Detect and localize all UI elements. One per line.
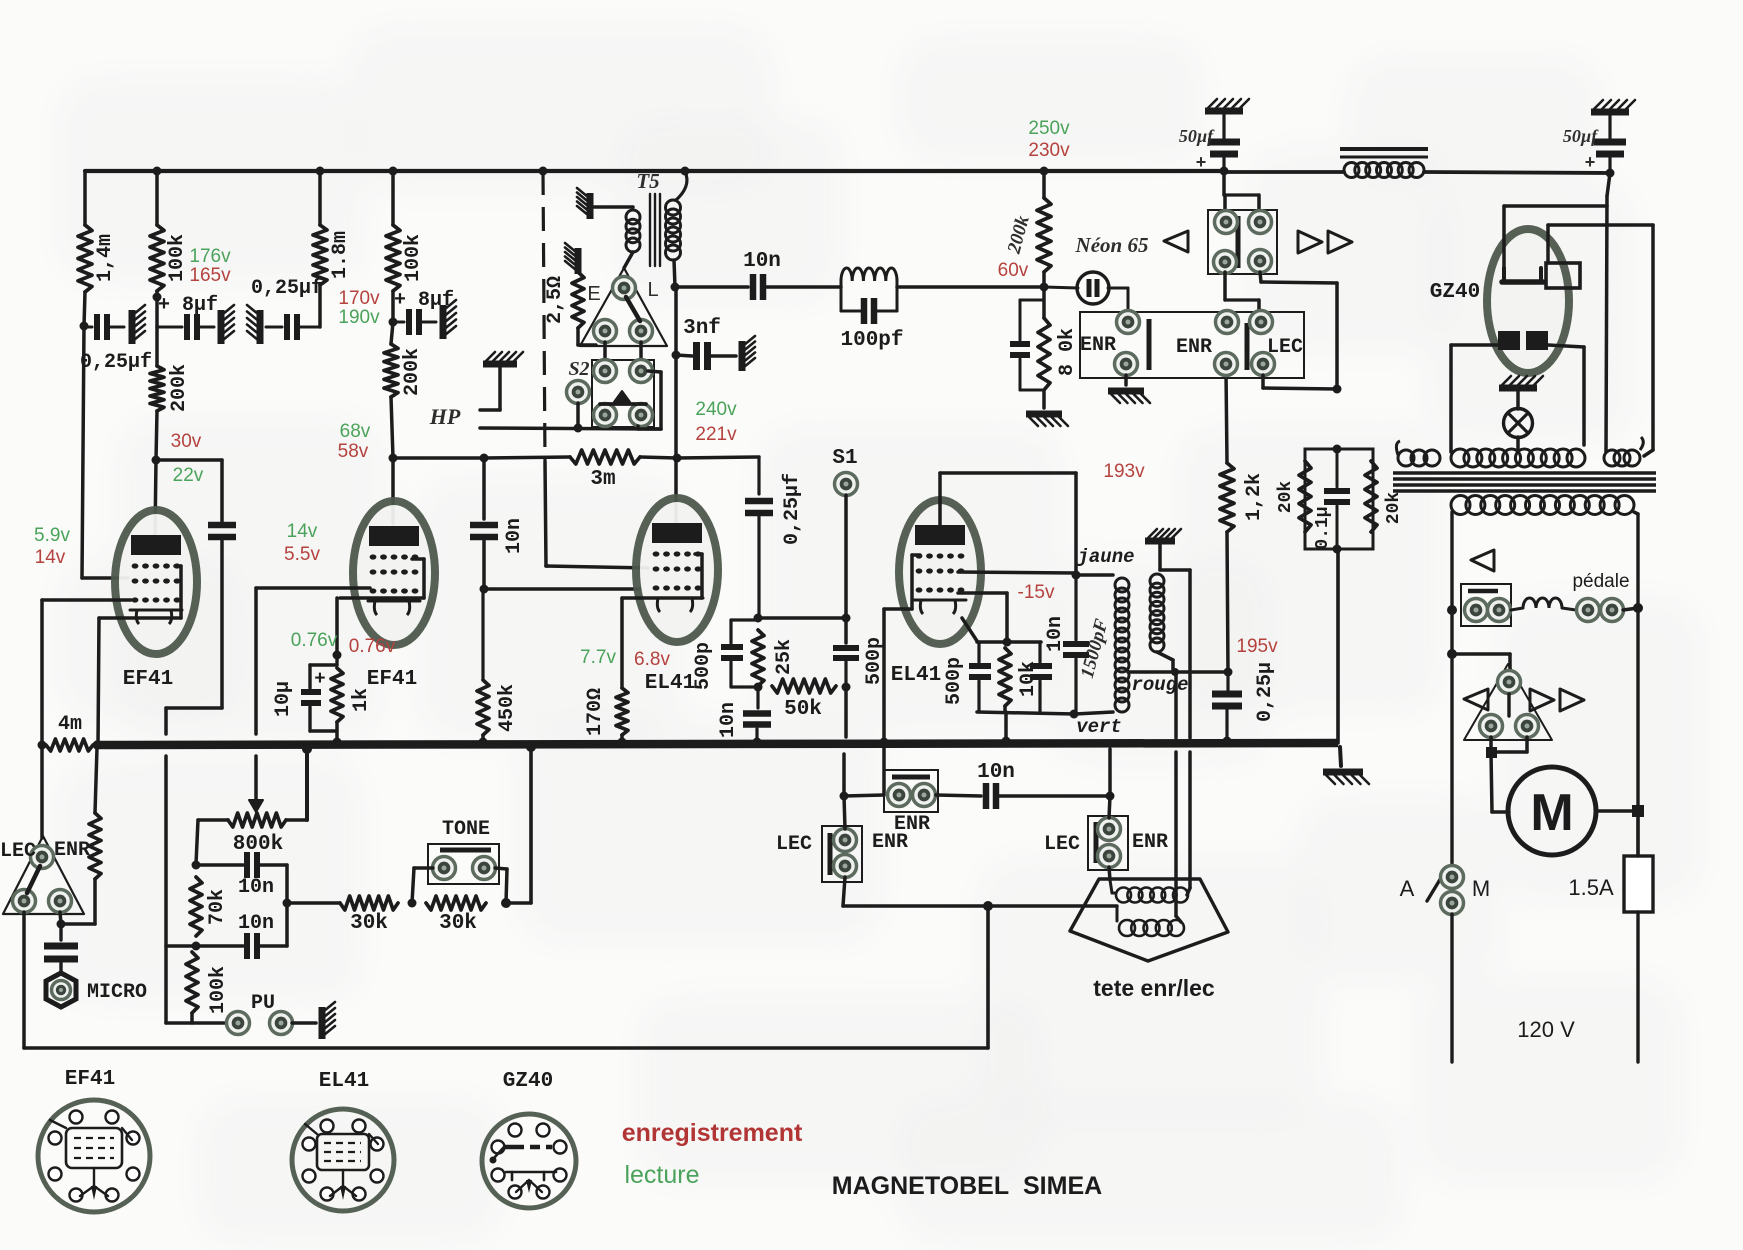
resistor 200k (screen): [150, 366, 164, 411]
wire coil bottom to vert: [1075, 712, 1113, 714]
label 5.9v: [34, 525, 70, 546]
ground for 8µf: [221, 305, 234, 344]
label 190v: [338, 307, 380, 328]
svg-text:LEC: LEC: [776, 833, 812, 856]
node S1 tap: [842, 614, 851, 623]
node 1k bus: [333, 738, 342, 747]
label ENR sw2: [1132, 831, 1168, 854]
label ENR bankB2: [1176, 336, 1212, 359]
wire grid feed EL41-1 g1: [546, 566, 648, 568]
svg-text:200k: 200k: [401, 348, 424, 396]
switch LEC/ENR-1 box: [822, 826, 862, 882]
svg-text:0,25µ: 0,25µ: [1254, 662, 1277, 722]
resistor 20k a: [1299, 461, 1311, 532]
svg-text:170v: 170v: [338, 288, 380, 309]
svg-text:4m: 4m: [58, 713, 82, 736]
label ENR sw1: [872, 831, 908, 854]
label 200k: [168, 364, 191, 412]
ground 50uf-1: [1205, 99, 1249, 111]
label 170ohm: [584, 688, 607, 736]
label pedale: [1572, 571, 1629, 592]
inductor pedale coil: [1511, 598, 1576, 610]
socket sw1 a: [834, 829, 857, 852]
ground for 0,25µf: [132, 305, 145, 344]
wire 3m left: [484, 457, 570, 458]
wire S1 below: [844, 687, 848, 737]
wire plate top to jaune: [940, 473, 1076, 575]
capacitor 10n-j: [1063, 575, 1089, 714]
svg-text:pédale: pédale: [1572, 571, 1629, 592]
wire 1.8m to cap node: [318, 285, 322, 327]
switch bank A box: [1208, 210, 1277, 274]
capacitor 10n osc: [753, 274, 763, 300]
resistor 1,2k: [1220, 463, 1234, 532]
ground PU: [322, 1002, 335, 1039]
svg-text:T5: T5: [636, 169, 659, 193]
svg-text:2,5Ω: 2,5Ω: [544, 276, 567, 324]
capacitor 80k parallel: [1010, 300, 1044, 390]
wire 10n feed down: [482, 458, 486, 519]
capacitor 50uf-1: [1208, 115, 1240, 171]
svg-text:1k: 1k: [350, 688, 373, 712]
svg-text:ENR: ENR: [1080, 334, 1116, 357]
svg-text:EL41: EL41: [891, 664, 941, 687]
node T5 out: [671, 283, 680, 292]
wire rail to 100k-2: [391, 171, 395, 225]
wire 2,5ohm to triangle: [578, 328, 596, 345]
svg-text:3nf: 3nf: [683, 317, 721, 340]
label 176v: [189, 246, 231, 267]
wire rail to 200k-3: [1042, 171, 1046, 198]
label 195v: [1236, 636, 1278, 657]
svg-text:S2: S2: [568, 358, 589, 380]
label 170v: [338, 288, 380, 309]
label 450k: [496, 684, 519, 732]
wire 100k to PU: [166, 1013, 226, 1023]
label TONE: [442, 818, 490, 841]
wire tank to 200k node: [897, 285, 1044, 289]
ground T5 left: [577, 188, 590, 219]
socket TONE a: [433, 857, 456, 880]
wire 3nf stub: [676, 355, 692, 356]
label jaune: [1076, 546, 1134, 568]
label 25k: [773, 639, 796, 675]
label 10n-t1: [238, 876, 274, 899]
capacitor 3nf: [697, 342, 708, 370]
switch ENR box: [884, 770, 938, 812]
label L: [647, 279, 658, 301]
wire below bus to 70k node: [164, 756, 168, 1023]
svg-text:0.1µ: 0.1µ: [1313, 506, 1333, 549]
svg-text:A: A: [1400, 876, 1415, 901]
label 240v: [695, 399, 737, 420]
wire sw1 top: [844, 796, 845, 829]
svg-text:1,2k: 1,2k: [1243, 473, 1266, 521]
label 80k: [1056, 328, 1079, 376]
label E: [587, 283, 600, 305]
svg-text:100pf: 100pf: [840, 329, 903, 352]
socket sw2 b: [1098, 845, 1121, 868]
ground bankB: [1108, 391, 1150, 403]
svg-text:-15v: -15v: [1018, 582, 1055, 603]
svg-text:1.5A: 1.5A: [1568, 875, 1614, 900]
wire head coil1 bracket: [1110, 880, 1116, 893]
label M sw: [1472, 876, 1490, 901]
node damp bottom: [1333, 545, 1342, 554]
node 30k mid: [408, 899, 417, 908]
node 50k out: [842, 683, 851, 692]
socket pedale b: [1488, 599, 1511, 622]
svg-text:M: M: [1530, 784, 1573, 842]
label 0.76v red: [349, 636, 396, 657]
label A plug: [0, 0, 1, 1]
node 10n-c bus: [753, 738, 762, 747]
label 30k a: [350, 912, 388, 935]
bar LEC/ENR-1: [828, 833, 833, 875]
label LEC sw2: [1044, 833, 1080, 856]
capacitor 0,25µ: [1212, 672, 1242, 740]
svg-text:14v: 14v: [35, 547, 66, 568]
label EL41 V4: [891, 664, 941, 687]
resistor 10k: [999, 648, 1011, 706]
svg-text:7.7v: 7.7v: [580, 647, 616, 668]
svg-text:M: M: [1472, 876, 1490, 901]
wire enr to 10n: [936, 795, 981, 796]
node 10n feed: [480, 454, 489, 463]
wire link solid part: [545, 462, 548, 566]
tube base EL41: [292, 1109, 394, 1211]
wire rail drop to sw: [1224, 171, 1259, 212]
svg-text:195v: 195v: [1236, 636, 1278, 657]
wire sw2 bottom to head: [1109, 867, 1110, 880]
wire 200k to node 30v: [156, 411, 157, 460]
node 10n out: [480, 585, 489, 594]
wire 100k-2 to node: [391, 291, 395, 322]
bar bankB 1: [1147, 319, 1152, 370]
wire 200k-3 to node: [1042, 272, 1046, 287]
lamp pilot: [1504, 409, 1533, 438]
label ENR bankB1: [1080, 334, 1116, 357]
resistor 30k b: [426, 896, 486, 910]
wire head coil2 right: [0, 0, 1, 1]
inductor secondary: [1451, 496, 1634, 515]
head tete enr/lec outline: [1070, 879, 1228, 961]
resistor 450k: [477, 589, 489, 735]
svg-text:enregistrement: enregistrement: [622, 1119, 803, 1147]
tube base GZ40: [482, 1114, 576, 1208]
box damp network: [1305, 449, 1373, 549]
ground 50uf-2: [1591, 100, 1635, 112]
label 500p-a: [692, 642, 715, 690]
wire top B+ rail: [85, 171, 1610, 173]
wire pedale right: [1623, 608, 1638, 610]
wire tri to S2 left: [603, 342, 607, 360]
label plus-2: [1585, 154, 1596, 174]
node motor right: [1632, 805, 1644, 817]
head triangle LEC/ENR: [3, 836, 84, 914]
capacitor 500p-c: [969, 642, 991, 712]
label Neon 65: [1075, 233, 1149, 257]
wire heater left: [1451, 345, 1498, 452]
label 68v: [340, 421, 371, 442]
socket head2 bl: [1480, 715, 1503, 738]
capacitor 50uf-2: [1594, 116, 1626, 173]
wire EL41-1 cathode drop: [620, 598, 624, 688]
inductor primary main: [1451, 449, 1585, 467]
wire grid feed EL41-1: [484, 587, 640, 591]
wire bottom drop: [986, 906, 990, 1048]
wire gnd stub: [1160, 545, 1190, 570]
label 0,25µf-2: [251, 277, 323, 300]
label 50k: [784, 698, 822, 721]
label EF41 V1: [123, 668, 173, 691]
svg-text:200k: 200k: [168, 364, 191, 412]
wire 3nf to gnd: [708, 354, 736, 358]
svg-text:+: +: [1196, 154, 1207, 174]
label 6.8v: [634, 649, 670, 670]
wire bus to 0.1u box riser: [1336, 549, 1340, 743]
svg-text:100k: 100k: [207, 966, 230, 1014]
resistor 200k-3: [1037, 198, 1051, 272]
label 1.8m: [329, 231, 352, 279]
ground 2,5ohm: [565, 243, 578, 274]
wire bankA bl drop: [1225, 272, 1259, 312]
wire 800k right riser: [286, 749, 307, 820]
node bottom run: [983, 901, 993, 911]
svg-text:8 0k: 8 0k: [1056, 328, 1079, 376]
socket S2 br: [630, 404, 653, 427]
node grid1 junction: [80, 322, 89, 331]
wire EL41-2 g2 to jaune: [958, 572, 1076, 573]
socket bankA bl: [1214, 251, 1237, 274]
wire sw2 drop: [1109, 796, 1110, 818]
label 200k-2: [401, 348, 424, 396]
socket bankB 2t: [1216, 311, 1239, 334]
node 30k right: [501, 898, 511, 908]
capacitor 500p-b: [833, 648, 859, 687]
ground 80k: [1026, 414, 1068, 426]
wire g1 below bus: [882, 748, 886, 793]
node rail right end: [1606, 169, 1615, 178]
tri head2 right1: [1530, 689, 1554, 711]
wire tri internal: [626, 297, 640, 321]
node S2 out: [574, 424, 583, 433]
resistor 100k grid: [186, 952, 198, 1013]
node 4m-right: [93, 741, 102, 750]
label 800k: [233, 833, 283, 856]
socket S1: [835, 473, 858, 496]
svg-text:Néon 65: Néon 65: [1075, 233, 1149, 257]
svg-text:20k: 20k: [1384, 492, 1404, 525]
label 10n-c: [717, 702, 740, 738]
wire 100k node to cap: [196, 944, 243, 948]
label 20k b: [1384, 492, 1404, 525]
switch A/M: [1427, 866, 1464, 915]
ground HP: [483, 352, 523, 364]
svg-text:ENR: ENR: [894, 813, 930, 836]
wire bottom run to head: [988, 904, 1117, 908]
label 500p-b: [863, 637, 886, 685]
wire micro node right: [61, 879, 95, 924]
label 3nf: [683, 317, 721, 340]
resistor 170ohm: [616, 688, 628, 735]
capacitor 0.1µ: [1324, 449, 1350, 549]
wire TONE a: [412, 868, 433, 903]
inductor 1500pF: [1115, 578, 1129, 712]
svg-text:165v: 165v: [189, 265, 231, 286]
wire 100k to node: [155, 291, 159, 327]
wire 170ohm to bus: [620, 735, 624, 742]
svg-text:rouge: rouge: [1131, 674, 1188, 696]
resistor 200k head: [89, 813, 101, 879]
wire T5 left: [594, 205, 633, 209]
svg-text:S1: S1: [832, 447, 857, 470]
node 25k out: [754, 683, 763, 692]
resistor 100k (EF41-1 plate): [150, 225, 164, 291]
socket tri br: [630, 320, 653, 343]
svg-text:GZ40: GZ40: [503, 1070, 553, 1093]
bar bank A: [1236, 216, 1241, 268]
node plate feed: [153, 293, 162, 302]
wire bottom long: [24, 1046, 988, 1050]
wire head internal: [27, 866, 40, 893]
transformer core: [1393, 473, 1656, 491]
label A: [1400, 876, 1415, 901]
cathode blocks GZ40: [1498, 331, 1548, 350]
tri left bankA: [1164, 231, 1188, 252]
svg-text:100k: 100k: [166, 234, 189, 282]
bar ENR box: [892, 775, 930, 780]
lamp neon 65: [1044, 272, 1128, 313]
switch pedale box: [1461, 584, 1511, 626]
svg-text:10n: 10n: [238, 876, 274, 899]
wire plate node right: [393, 456, 484, 460]
svg-text:0.76v: 0.76v: [349, 636, 396, 657]
switch S2 box: [592, 360, 654, 427]
label + 8µf: [158, 294, 218, 317]
node neon: [1040, 283, 1049, 292]
svg-text:30v: 30v: [171, 431, 202, 452]
wire g1 drop: [882, 609, 886, 738]
label ENR box: [894, 813, 930, 836]
node 450k bus: [479, 738, 488, 747]
node sense join: [1171, 668, 1179, 676]
wire anode1 riser: [1504, 206, 1607, 270]
label ENR head: [54, 839, 90, 862]
wire HP line: [480, 428, 661, 429]
socket head2 br: [1516, 715, 1539, 738]
wire to 0,25uf column: [677, 457, 759, 458]
wire head bl drop: [22, 912, 26, 1048]
node 170 bus: [618, 738, 627, 747]
svg-text:5.5v: 5.5v: [284, 544, 320, 565]
wire secondary left: [1450, 512, 1453, 610]
wire 10k stem to bus: [1005, 706, 1006, 740]
label 22v: [173, 465, 204, 486]
wire shield drop x=1190: [1187, 570, 1190, 895]
label tete enr/lec: [1093, 975, 1215, 1001]
node sw2 top: [1106, 792, 1115, 801]
node 0,25µ bus: [1223, 737, 1232, 746]
ground for 0,25µf-2: [247, 305, 260, 344]
socket bankA tl: [1215, 211, 1238, 234]
svg-text:GZ40: GZ40: [1430, 281, 1480, 304]
wire bus to head: [40, 745, 44, 838]
label 1500pF: [1077, 616, 1113, 680]
resistor 3m: [570, 450, 640, 464]
label EL41 V3: [645, 672, 695, 695]
node head2 tap: [1447, 649, 1457, 659]
capacitor coupling EF41-1: [208, 525, 236, 537]
wire 70k node to cap: [196, 863, 243, 867]
tri right bankA 2: [1328, 231, 1352, 253]
label 4m: [58, 713, 82, 736]
capacitor 0,25µf coupling: [745, 457, 773, 618]
inductor 100pf tank coil: [841, 268, 897, 281]
wire to S1: [758, 616, 846, 620]
node g3 in: [1003, 638, 1012, 647]
node g1 bus: [880, 738, 889, 747]
anode 2 box GZ40: [1546, 263, 1580, 288]
wire 200k-2 top: [391, 322, 393, 344]
wire head br drop: [60, 912, 61, 924]
socket S2 tl: [594, 360, 617, 383]
resistor 4m: [46, 739, 93, 751]
socket head br: [49, 890, 72, 913]
wire T5 sec bottom: [674, 260, 675, 287]
resistor 1,4m: [78, 225, 92, 292]
wire grid drop to 800k wiper lower: [254, 756, 258, 806]
label 500p-c: [943, 657, 966, 705]
svg-text:100k: 100k: [402, 234, 425, 282]
svg-text:ENR: ENR: [1132, 831, 1168, 854]
socket head2 top: [1498, 671, 1521, 694]
node EF41-2 plate node: [389, 454, 398, 463]
svg-text:jaune: jaune: [1076, 546, 1134, 568]
caption MAGNETOBEL SIMEA: [832, 1172, 1102, 1200]
node 70k top: [192, 861, 201, 870]
wire grid drop to 800k wiper upper: [254, 588, 258, 734]
wire EL41-2 g3 right: [958, 593, 1007, 640]
socket sw2 a: [1098, 818, 1121, 841]
wire secondary right: [1634, 512, 1638, 608]
node 800k bus: [302, 744, 312, 754]
label 100pf: [840, 329, 903, 352]
resistor 30k a: [340, 896, 398, 910]
svg-text:EF41: EF41: [65, 1068, 115, 1091]
wire 10n-s right: [997, 794, 1110, 798]
resistor 200k-2: [384, 344, 398, 397]
switch S2 arrow: [600, 391, 646, 404]
socket bankB 3t: [1250, 311, 1273, 334]
svg-text:10n: 10n: [238, 912, 274, 935]
node lec out: [1333, 385, 1342, 394]
svg-text:3m: 3m: [590, 468, 615, 491]
resistor 50k: [772, 679, 836, 693]
wire 10n-t2 right: [258, 944, 287, 948]
wire PU b to gnd: [292, 1021, 316, 1025]
svg-text:+ 8µf: + 8µf: [158, 294, 218, 317]
wire 80k to gnd: [1042, 390, 1046, 408]
anode plate GZ40: [1502, 268, 1543, 282]
svg-text:LEC: LEC: [1267, 336, 1303, 359]
wire TONE b: [495, 868, 507, 903]
node tone mid: [283, 899, 292, 908]
connector MICRO hex: [46, 973, 76, 1007]
label 10µ: [272, 681, 295, 717]
label 100k grid: [207, 966, 230, 1014]
capacitor 10n coupling: [470, 525, 498, 537]
